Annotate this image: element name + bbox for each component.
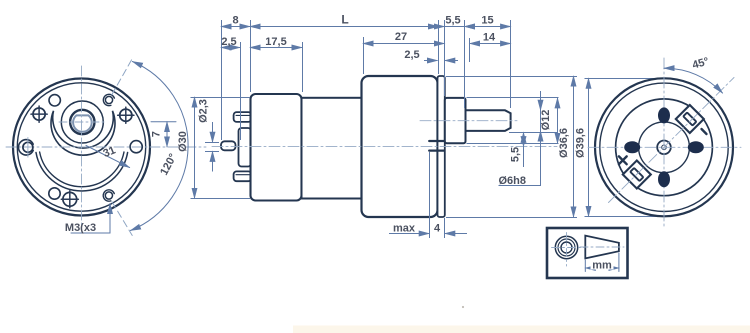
- svg-text:14: 14: [483, 32, 496, 44]
- dim O2,3 ext: [205, 142, 219, 144]
- rear center hole: [657, 141, 671, 155]
- legend crosshair: [566, 233, 568, 267]
- dim 8: [221, 26, 250, 28]
- hole I M3: [105, 192, 112, 199]
- centerline vertical left view: [81, 66, 83, 230]
- ext line gearbox left: [363, 37, 365, 74]
- svg-text:Ø39,6: Ø39,6: [575, 128, 587, 158]
- svg-text:Ø30: Ø30: [177, 131, 189, 152]
- rear ring circle: [600, 83, 728, 211]
- motor end cap: [251, 94, 302, 201]
- rear bearing bump: [239, 128, 252, 167]
- 31 bolt circle leader: [86, 146, 130, 168]
- plus sign: [615, 153, 631, 169]
- gearbox front plate: [438, 76, 445, 217]
- svg-text:27: 27: [395, 31, 407, 43]
- terminal pin bottom: [234, 171, 252, 181]
- dim O36,6 line: [573, 76, 575, 217]
- svg-text:120°: 120°: [158, 152, 179, 178]
- ext line cap right: [302, 42, 304, 92]
- dim 27: [363, 43, 444, 45]
- centerline diagonal 45: [609, 78, 735, 203]
- dim 5,5 vert ext: [509, 132, 558, 134]
- hole B M3: [105, 96, 112, 103]
- hole A plain: [49, 95, 60, 106]
- dim O30 line: [194, 97, 196, 198]
- legend taper: [585, 236, 619, 259]
- svg-text:5,5: 5,5: [510, 147, 522, 162]
- dim 15: [465, 26, 511, 28]
- svg-text:17,5: 17,5: [265, 36, 286, 48]
- motor can: [302, 98, 363, 199]
- rear inner circle: [616, 99, 713, 196]
- vent oval right: [688, 141, 704, 153]
- ext line plate right: [444, 20, 446, 96]
- terminal tab upper right: [676, 105, 704, 133]
- centerline horizontal right view: [588, 146, 741, 148]
- svg-text:45°: 45°: [691, 56, 710, 72]
- svg-text:2,5: 2,5: [404, 49, 419, 61]
- centerline horizontal left view: [6, 146, 206, 148]
- dim 2,5 right outside arrows: [424, 60, 438, 62]
- dim O36,6 ext: [446, 76, 577, 78]
- O6h8 leader: [540, 91, 542, 185]
- output shaft: [466, 110, 511, 131]
- legend mm dim line: [585, 267, 619, 269]
- dim O2,3 arrows: [212, 122, 214, 142]
- gear face arc inner: [40, 152, 124, 187]
- gearbox body: [362, 76, 438, 217]
- dim 14: [470, 43, 511, 45]
- shaft circle: [70, 110, 94, 134]
- dim O12 line: [557, 98, 559, 143]
- dim O39,6 line: [588, 78, 590, 216]
- dim 17,5: [250, 47, 302, 49]
- 45 deg dimension arc: [664, 68, 723, 93]
- hole B radial extension: [112, 57, 134, 95]
- shaft D flat: [73, 115, 92, 131]
- hole G plain: [49, 188, 60, 199]
- faint footer bar: [293, 326, 750, 333]
- legend mm label: [591, 260, 614, 270]
- legend mm dim ext: [584, 260, 586, 272]
- svg-text:4: 4: [434, 223, 441, 235]
- hole C cross: [33, 108, 45, 120]
- dim O12 ext: [467, 97, 559, 99]
- dim max4 arrows: [389, 233, 429, 235]
- ext line boss face: [464, 20, 466, 108]
- vent oval bottom: [658, 171, 670, 187]
- 7 dim extension: [151, 121, 176, 123]
- legend shaft circles: [555, 236, 577, 258]
- dim 5,5 vert line: [523, 132, 525, 146]
- rear shaft stub: [221, 141, 236, 150]
- rear boss circle: [639, 122, 690, 173]
- flange ring circle: [17, 83, 145, 211]
- ext line shaft tip: [510, 20, 512, 108]
- terminal pin top: [234, 112, 252, 122]
- ext line pin tip: [221, 20, 223, 140]
- dim O39,6 ext: [585, 78, 661, 80]
- bearing boss: [445, 98, 466, 143]
- svg-text:M3(x3: M3(x3: [65, 222, 96, 234]
- svg-text:Ø12: Ø12: [540, 110, 552, 131]
- shaft crosshair: [59, 121, 106, 123]
- rear outer circle: [595, 78, 733, 216]
- flange outer circle: [13, 79, 150, 216]
- vent oval left: [624, 141, 640, 153]
- svg-text:Ø36,6: Ø36,6: [558, 128, 570, 158]
- stray dot: [462, 306, 464, 308]
- terminal tab lower left: [623, 160, 651, 188]
- dim L: [250, 26, 439, 28]
- centerline vertical right view: [663, 58, 665, 228]
- ext line stub base: [240, 42, 242, 140]
- minus sign: [702, 129, 707, 134]
- svg-text:Ø6h8: Ø6h8: [499, 175, 527, 187]
- ext line cap left: [250, 20, 252, 92]
- dim 5,5 top outside arrows: [432, 26, 444, 28]
- svg-text:Ø2,3: Ø2,3: [198, 99, 210, 123]
- gear face arc outer: [36, 153, 128, 191]
- dim 2,5 left: [221, 47, 240, 49]
- hole I radial extension: [112, 202, 132, 236]
- svg-text:L: L: [341, 13, 348, 27]
- legend box frame: [547, 228, 628, 278]
- svg-text:5,5: 5,5: [445, 15, 460, 27]
- svg-text:7: 7: [151, 131, 163, 137]
- dim O30 ext: [191, 97, 251, 99]
- hole F plain: [130, 141, 142, 153]
- 120 deg dimension arc: [131, 62, 189, 231]
- shaft boss circle: [61, 101, 103, 143]
- svg-text:8: 8: [232, 15, 238, 27]
- mounting screw hole side depiction: [429, 140, 444, 142]
- svg-text:mm: mm: [592, 260, 612, 272]
- svg-text:2,5: 2,5: [221, 36, 236, 48]
- vent oval top: [658, 107, 670, 123]
- ext line shaft flat start: [469, 38, 471, 62]
- output axis centerline: [420, 120, 517, 122]
- hole D cross: [120, 109, 132, 121]
- svg-text:15: 15: [481, 15, 493, 27]
- motor axis centerline: [212, 146, 557, 148]
- dim max4 ext: [429, 152, 431, 238]
- ext line gearbox right: [438, 20, 440, 74]
- svg-text:max: max: [393, 223, 416, 235]
- crescent cutout: [51, 111, 115, 155]
- legend taper centerline: [580, 246, 624, 248]
- 7 dim line: [166, 122, 168, 147]
- M3 leader: [71, 204, 110, 234]
- hole E M3: [23, 142, 33, 152]
- hole H cross: [63, 192, 77, 206]
